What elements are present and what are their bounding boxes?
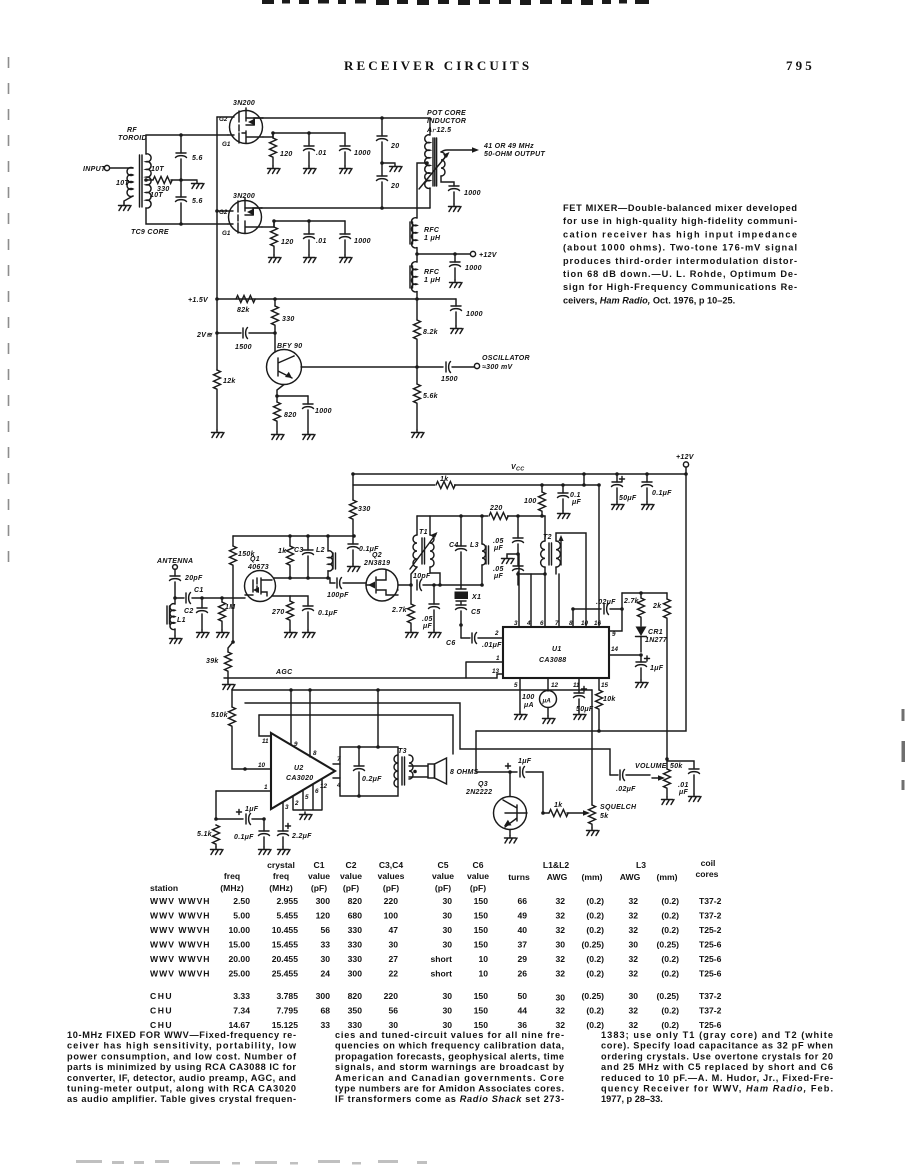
svg-text:50-OHM OUTPUT: 50-OHM OUTPUT xyxy=(484,151,545,158)
svg-text:795: 795 xyxy=(786,58,815,73)
antenna terminal xyxy=(156,558,193,569)
ground xyxy=(451,326,464,334)
svg-text:30: 30 xyxy=(442,940,452,950)
potentiometer SQUELCH 5k xyxy=(583,804,637,828)
ground (.05uF) xyxy=(429,630,442,638)
resistor 5.6k xyxy=(414,367,439,430)
rail T1/tank (y516) xyxy=(417,515,545,517)
svg-text:6: 6 xyxy=(540,620,544,627)
inductor L3 xyxy=(470,516,489,585)
svg-text:.05: .05 xyxy=(422,616,433,623)
svg-text:2.2μF: 2.2μF xyxy=(291,833,312,840)
bleed-through marks at right edge xyxy=(902,709,906,790)
svg-text:.05: .05 xyxy=(493,538,504,545)
svg-text:.01: .01 xyxy=(678,782,689,789)
dashed margin rule at left edge xyxy=(8,57,10,577)
capacitor 0.1uF (Vcc) xyxy=(642,474,673,502)
svg-text:coil: coil xyxy=(701,858,716,868)
ground xyxy=(268,166,281,174)
svg-text:AWG: AWG xyxy=(547,872,568,882)
ground (center tap) xyxy=(192,181,205,189)
svg-text:270: 270 xyxy=(271,609,285,616)
svg-text:11: 11 xyxy=(573,682,580,689)
svg-text:1383; use only T1 (gray core): 1383; use only T1 (gray core) and T2 (wh… xyxy=(601,1030,833,1040)
svg-text:C5: C5 xyxy=(471,609,481,616)
svg-text:7: 7 xyxy=(555,620,559,627)
speaker 8 OHMS xyxy=(409,758,479,784)
svg-text:C6: C6 xyxy=(473,860,484,870)
svg-text:32: 32 xyxy=(628,925,638,935)
+1.5V rail xyxy=(217,298,456,300)
svg-text:39k: 39k xyxy=(206,658,219,665)
svg-text:3N200: 3N200 xyxy=(233,193,255,200)
svg-text:POT CORE: POT CORE xyxy=(427,110,466,117)
diode CR1 1N277 xyxy=(636,627,668,653)
svg-text:1000: 1000 xyxy=(466,311,483,318)
transformer T2 xyxy=(541,516,564,574)
svg-text:510k: 510k xyxy=(211,712,229,719)
svg-text:6: 6 xyxy=(315,788,319,795)
transistor Q1 40673 xyxy=(245,556,276,602)
resistor 5.1k xyxy=(197,825,220,847)
pin 8 xyxy=(569,607,575,627)
svg-text:(0.2): (0.2) xyxy=(586,925,604,935)
svg-text:0.1μF: 0.1μF xyxy=(318,610,338,617)
svg-text:μF: μF xyxy=(678,789,689,796)
svg-text:330: 330 xyxy=(282,316,295,323)
svg-text:330: 330 xyxy=(348,925,363,935)
capacitor 1uF (U2 input) xyxy=(216,806,266,825)
svg-text:0.2μF: 0.2μF xyxy=(362,776,382,783)
svg-text:1000: 1000 xyxy=(464,190,481,197)
svg-text:(mm): (mm) xyxy=(581,872,602,882)
svg-text:CA3088: CA3088 xyxy=(539,657,566,664)
svg-text:CR1: CR1 xyxy=(648,629,663,636)
output loop box xyxy=(340,747,398,796)
svg-text:20pF: 20pF xyxy=(184,575,203,582)
svg-text:L1: L1 xyxy=(177,617,186,624)
ground (L1) xyxy=(170,636,183,644)
svg-text:1000: 1000 xyxy=(465,265,482,272)
svg-text:G1: G1 xyxy=(222,141,231,148)
svg-text:value: value xyxy=(340,871,362,881)
ground stub (20 caps) xyxy=(382,163,402,172)
svg-text:CHU: CHU xyxy=(150,1006,173,1016)
svg-text:33: 33 xyxy=(320,940,330,950)
wire secondary top to G1 FET1 xyxy=(146,135,228,154)
svg-text:5.00: 5.00 xyxy=(233,911,250,921)
svg-text:8: 8 xyxy=(313,750,317,757)
capacitor 1000 (+12V) xyxy=(450,254,482,280)
svg-text:INPUT: INPUT xyxy=(83,166,106,173)
interconnect line (y715) xyxy=(259,715,453,754)
svg-text:25.455: 25.455 xyxy=(272,969,299,979)
capacitor 0.1uF (Q1 source) xyxy=(290,596,338,630)
tap node + wire to RFC column xyxy=(417,161,429,218)
svg-text:(0.2): (0.2) xyxy=(661,1006,679,1016)
output arrow 41 or 49 MHz xyxy=(441,143,545,158)
svg-text:15.125: 15.125 xyxy=(272,1020,299,1030)
svg-text:33: 33 xyxy=(320,1020,330,1030)
svg-text:25.00: 25.00 xyxy=(228,969,250,979)
ground (820) xyxy=(272,432,285,440)
svg-text:5.6k: 5.6k xyxy=(423,393,439,400)
svg-text:AGC: AGC xyxy=(275,669,293,676)
svg-text:turns: turns xyxy=(508,872,530,882)
Q1 source components: resistor 270 xyxy=(271,596,294,630)
svg-text:32: 32 xyxy=(555,954,565,964)
resistor 220 xyxy=(488,505,508,521)
svg-text:produces third-order intermodu: produces third-order intermodulation dis… xyxy=(563,256,797,266)
Q3 collector wire xyxy=(508,770,512,796)
svg-text:ceiver has high sensitivity, p: ceiver has high sensitivity, portability… xyxy=(67,1041,297,1051)
node G2 FET2 xyxy=(215,209,219,213)
svg-text:(0.25): (0.25) xyxy=(582,991,605,1001)
svg-text:U1: U1 xyxy=(552,646,562,653)
svg-text:(0.2): (0.2) xyxy=(661,1020,679,1030)
capacitor C2 xyxy=(184,596,208,630)
labels pot core xyxy=(426,110,466,134)
pin 10 xyxy=(243,762,271,771)
svg-text:10-MHz FIXED FOR WWV—Fixed-fre: 10-MHz FIXED FOR WWV—Fixed-frequency re- xyxy=(67,1030,296,1040)
Q2 output line xyxy=(398,585,411,590)
resistor 330 (center tap) xyxy=(146,177,197,194)
ground (5.6k) xyxy=(412,430,425,438)
capacitor .05uF (lower of pair) xyxy=(493,554,524,585)
op-amp U2 CA3020 xyxy=(271,733,335,809)
pin 11 xyxy=(259,715,271,745)
svg-text:3N200: 3N200 xyxy=(233,100,255,107)
rail (interstage, y536) xyxy=(233,535,354,537)
svg-text:150: 150 xyxy=(474,1020,489,1030)
svg-text:56: 56 xyxy=(320,925,330,935)
resistor 1M (antenna) xyxy=(219,596,236,630)
transformer T3 xyxy=(394,748,413,787)
svg-text:47: 47 xyxy=(388,925,398,935)
capacitor 0.2uF xyxy=(354,747,383,796)
transformer RF TOROID primary 10T xyxy=(124,168,133,204)
svg-text:C2: C2 xyxy=(346,860,357,870)
svg-text:32: 32 xyxy=(555,925,565,935)
transistor Q3 2N2222 xyxy=(465,781,527,830)
ground (270) xyxy=(285,630,298,638)
svg-text:.05: .05 xyxy=(493,566,504,573)
svg-text:12: 12 xyxy=(551,682,559,689)
capacitor C1 xyxy=(175,587,245,604)
svg-text:Aₗ·12.5: Aₗ·12.5 xyxy=(426,127,451,134)
pin 9 xyxy=(291,690,298,748)
ground (pins bus) xyxy=(300,812,313,820)
svg-text:30: 30 xyxy=(628,991,638,1001)
svg-text:IF transformers come as Radio: IF transformers come as Radio Shack set … xyxy=(335,1094,564,1104)
wire Vcc feed to bias rail xyxy=(583,474,585,485)
svg-text:50: 50 xyxy=(517,991,527,1001)
wire 150k bottom to 39k xyxy=(231,640,235,644)
ground (0.1uF Vcc) xyxy=(642,502,655,510)
capacitor C3 xyxy=(294,536,314,578)
capacitor 50uF (pin 11) xyxy=(573,678,594,713)
capacitor 1000 (emitter) xyxy=(303,396,332,432)
capacitor 1000 (FET2) xyxy=(340,221,371,255)
svg-text:30: 30 xyxy=(388,1020,398,1030)
svg-text:150: 150 xyxy=(474,896,489,906)
resistor 1k (Vcc feed) xyxy=(435,476,455,490)
oscillator terminal xyxy=(474,355,529,371)
crystal X1 xyxy=(455,585,482,605)
Q1 drain wire xyxy=(274,578,335,583)
svg-text:T37-2: T37-2 xyxy=(699,1006,722,1016)
svg-text:L3: L3 xyxy=(636,860,646,870)
svg-text:(MHz): (MHz) xyxy=(269,883,293,893)
svg-text:μF: μF xyxy=(422,623,433,630)
pin 1 wire xyxy=(216,784,271,819)
svg-text:tion 68 dB down.—U. L. Rohde,: tion 68 dB down.—U. L. Rohde, Optimum De… xyxy=(563,269,797,279)
node 20 caps center xyxy=(380,161,384,165)
svg-text:14.67: 14.67 xyxy=(228,1020,250,1030)
gate bus G2-G2 vertical xyxy=(216,117,218,370)
potentiometer VOLUME 50k xyxy=(635,759,683,797)
svg-text:RF: RF xyxy=(127,127,137,134)
svg-text:TC9 CORE: TC9 CORE xyxy=(131,229,169,236)
svg-text:C6: C6 xyxy=(446,640,456,647)
svg-text:L2: L2 xyxy=(316,547,325,554)
svg-text:ordering crystals. Use overton: ordering crystals. Use overtone crystals… xyxy=(601,1051,833,1061)
capacitor 5.6 (upper) xyxy=(176,135,203,180)
svg-text:2: 2 xyxy=(494,630,499,637)
svg-text:40: 40 xyxy=(517,925,527,935)
svg-text:30: 30 xyxy=(388,940,398,950)
source rail FET2 xyxy=(262,221,345,227)
transistor Q2 2N3819 xyxy=(363,552,398,601)
svg-text:(0.25): (0.25) xyxy=(582,940,605,950)
svg-text:220: 220 xyxy=(384,896,399,906)
T2 secondary to pin 10 xyxy=(556,533,586,627)
ground xyxy=(558,511,571,519)
svg-text:.02μF: .02μF xyxy=(616,786,636,793)
svg-text:short: short xyxy=(431,954,453,964)
capacitor .02uF (volume wiper) xyxy=(610,770,650,794)
ground (meter) xyxy=(543,716,556,724)
svg-text:12: 12 xyxy=(320,783,328,790)
resistor 100 xyxy=(524,485,546,516)
svg-text:20.00: 20.00 xyxy=(228,954,250,964)
pin 5 xyxy=(514,678,520,712)
ground (50uF) xyxy=(574,712,587,720)
svg-text:120: 120 xyxy=(316,911,331,921)
svg-text:30: 30 xyxy=(442,1020,452,1030)
svg-text:300: 300 xyxy=(316,991,331,1001)
svg-text:9: 9 xyxy=(294,741,298,748)
capacitor .01uF (volume top) xyxy=(667,761,700,796)
ground (0.1uF U2) xyxy=(259,847,272,855)
center tap node xyxy=(144,178,148,182)
svg-text:30: 30 xyxy=(442,925,452,935)
ground xyxy=(269,255,282,263)
svg-text:10: 10 xyxy=(258,762,266,769)
svg-text:0.1μF: 0.1μF xyxy=(652,490,672,497)
svg-text:T25-2: T25-2 xyxy=(699,925,722,935)
svg-text:0.1μF: 0.1μF xyxy=(234,834,254,841)
resistor 120 (FET2 source) xyxy=(271,221,294,255)
node C5/C6 xyxy=(459,623,463,627)
svg-text:(0.2): (0.2) xyxy=(661,896,679,906)
svg-text:32: 32 xyxy=(628,1006,638,1016)
svg-text:10: 10 xyxy=(581,620,589,627)
svg-text:station: station xyxy=(150,883,178,893)
cropped glyph fragments at bottom edge xyxy=(76,1160,427,1165)
wire top (2.7k/2k rail) xyxy=(622,592,667,594)
node secondary bottom xyxy=(179,222,183,226)
svg-text:T37-2: T37-2 xyxy=(699,911,722,921)
svg-text:WWV WWVH: WWV WWVH xyxy=(150,911,211,921)
node bottom wire xyxy=(380,206,384,210)
svg-text:propagation forecasts, geophys: propagation forecasts, geophysical alert… xyxy=(335,1051,564,1061)
pot core inductor primary xyxy=(425,118,430,208)
volume feed vertical (from 2k) already drawn; node at volume top xyxy=(665,757,669,761)
capacitor 20 (lower) xyxy=(377,163,400,208)
svg-text:T3: T3 xyxy=(398,748,407,755)
svg-text:150k: 150k xyxy=(238,551,256,558)
svg-text:2.50: 2.50 xyxy=(233,896,250,906)
svg-text:330: 330 xyxy=(348,954,363,964)
svg-text:100: 100 xyxy=(524,498,537,505)
ground (input primary) xyxy=(119,203,132,211)
svg-text:(MHz): (MHz) xyxy=(220,883,244,893)
svg-text:2.955: 2.955 xyxy=(276,896,298,906)
svg-text:32: 32 xyxy=(628,954,638,964)
capacitor C6 xyxy=(446,630,503,649)
svg-text:10T: 10T xyxy=(116,180,129,187)
svg-text:sign for High-Frequency Commun: sign for High-Frequency Communications R… xyxy=(563,282,797,292)
svg-text:C1: C1 xyxy=(314,860,325,870)
ground (output) xyxy=(449,204,462,212)
svg-text:(0.2): (0.2) xyxy=(661,954,679,964)
svg-text:μF: μF xyxy=(493,573,504,580)
2V node and capacitor 1500 xyxy=(196,328,277,352)
svg-text:CHU: CHU xyxy=(150,991,173,1001)
transformer T1 xyxy=(410,516,442,587)
svg-text:TOROID: TOROID xyxy=(118,135,147,142)
svg-text:1k: 1k xyxy=(554,802,563,809)
svg-text:L1&L2: L1&L2 xyxy=(543,860,569,870)
pin 4 xyxy=(526,574,531,627)
svg-text:values: values xyxy=(378,871,405,881)
inductor L2 xyxy=(316,536,336,578)
svg-text:330: 330 xyxy=(358,506,371,513)
+12V rail xyxy=(417,248,470,254)
svg-text:(0.2): (0.2) xyxy=(586,911,604,921)
resistor 39k xyxy=(206,642,233,682)
svg-text:(0.2): (0.2) xyxy=(586,1006,604,1016)
svg-text:T2: T2 xyxy=(543,534,552,541)
inductor RFC 1uH (upper) xyxy=(410,218,441,248)
svg-text:820: 820 xyxy=(284,412,297,419)
capacitor 50uF (Vcc) xyxy=(612,474,637,502)
ground (squelch) xyxy=(587,828,600,836)
svg-text:150: 150 xyxy=(474,911,489,921)
wire crystal line xyxy=(461,584,482,586)
svg-text:(0.2): (0.2) xyxy=(586,1020,604,1030)
svg-text:30: 30 xyxy=(442,911,452,921)
svg-text:.02μF: .02μF xyxy=(596,599,616,606)
svg-text:L3: L3 xyxy=(470,542,479,549)
svg-text:short: short xyxy=(431,969,453,979)
resistor 330 (Q1 drain feed) xyxy=(350,474,371,536)
svg-text:150: 150 xyxy=(474,925,489,935)
svg-text:14: 14 xyxy=(611,646,619,653)
svg-text:82k: 82k xyxy=(237,307,250,314)
transistor Q 3N200 (upper FET1) xyxy=(217,100,263,148)
svg-text:freq: freq xyxy=(224,871,240,881)
svg-text:5.455: 5.455 xyxy=(276,911,298,921)
svg-text:(pF): (pF) xyxy=(311,883,327,893)
svg-text:15.00: 15.00 xyxy=(228,940,250,950)
transistor Q 3N200 (lower FET2) xyxy=(217,193,262,237)
svg-text:26: 26 xyxy=(517,969,527,979)
svg-text:Q3: Q3 xyxy=(478,781,488,788)
svg-text:5.1k: 5.1k xyxy=(197,831,213,838)
capacitor 0.1uF (U2) xyxy=(234,819,270,847)
svg-text:20: 20 xyxy=(390,143,399,150)
+12V terminal xyxy=(470,251,497,259)
svg-text:27: 27 xyxy=(388,954,398,964)
svg-text:OSCILLATOR: OSCILLATOR xyxy=(482,355,530,362)
svg-text:1 μH: 1 μH xyxy=(424,277,441,284)
capacitor C4 xyxy=(449,516,467,585)
svg-text:3: 3 xyxy=(514,620,518,627)
svg-text:32: 32 xyxy=(628,969,638,979)
svg-text:150: 150 xyxy=(474,991,489,1001)
capacitor 10pF xyxy=(413,573,461,591)
svg-text:AWG: AWG xyxy=(620,872,641,882)
wire secondary bottom to G1 FET2 xyxy=(146,208,228,224)
capacitor 0.1uF (100 res) xyxy=(558,485,582,511)
svg-text:36: 36 xyxy=(517,1020,527,1030)
svg-text:32: 32 xyxy=(555,911,565,921)
rail with 1k (y485) xyxy=(353,484,599,486)
resistor 510k xyxy=(211,690,245,769)
svg-text:G1: G1 xyxy=(222,230,231,237)
svg-text:(0.2): (0.2) xyxy=(586,954,604,964)
svg-text:WWV WWVH: WWV WWVH xyxy=(150,969,211,979)
ground (39k) xyxy=(223,682,236,690)
transistor BFY 90 xyxy=(267,343,303,385)
resistor 2.7k (Q2 source) xyxy=(391,583,415,630)
capacitor 20pF xyxy=(170,569,203,598)
svg-text:5k: 5k xyxy=(600,813,609,820)
node secondary top / C 5.6 xyxy=(179,133,183,137)
capacitor .05uF (Q2 source) xyxy=(422,583,440,630)
svg-text:cores: cores xyxy=(696,869,719,879)
svg-text:30: 30 xyxy=(628,940,638,950)
svg-text:7.34: 7.34 xyxy=(233,1006,250,1016)
resistor 120 (FET1 source) xyxy=(270,133,293,166)
svg-text:RFC: RFC xyxy=(424,269,440,276)
svg-text:freq: freq xyxy=(273,871,289,881)
svg-text:tuning-meter output, along wit: tuning-meter output, along with RCA CA30… xyxy=(67,1084,296,1094)
svg-text:INDUCTOR: INDUCTOR xyxy=(427,118,466,125)
capacitor 20 (upper) xyxy=(377,118,400,163)
svg-text:1k: 1k xyxy=(440,476,449,483)
top wire (drain rail FET1) xyxy=(263,117,430,119)
ground (0.1uF) xyxy=(303,630,316,638)
svg-text:for use in high-quality high-f: for use in high-quality high-fidelity co… xyxy=(563,216,797,226)
svg-text:G2: G2 xyxy=(219,209,228,216)
svg-text:10k: 10k xyxy=(603,696,616,703)
resistor 1k (Q1 drain) xyxy=(278,536,294,578)
svg-text:(pF): (pF) xyxy=(470,883,486,893)
svg-text:T25-6: T25-6 xyxy=(699,969,722,979)
